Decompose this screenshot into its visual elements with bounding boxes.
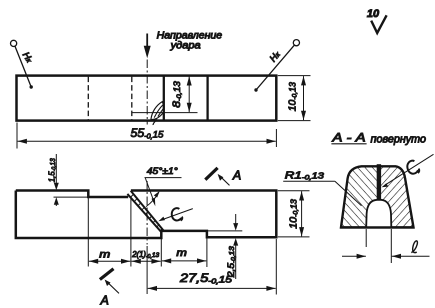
hidden edge (dashed) at slot corner x=131.8 (131, 77, 133, 120)
extension line for 2,5 dim at y=230.9 (207, 230, 242, 232)
dimension 2,5 lower arrow (235, 241, 237, 279)
svg-text:А: А (232, 169, 241, 183)
right leader line with dot (256, 45, 294, 90)
slot hatching ticks (131, 194, 162, 231)
45deg dimension arc with arrow (146, 192, 159, 206)
dimension 2(1) line (132, 260, 161, 262)
centerline of notch (dash-dot) (146, 60, 148, 125)
extension lines for l dim (365, 229, 367, 247)
leader for squiggle (bottom view) (163, 209, 193, 220)
squiggle symbol near bottom view slot (170, 207, 183, 222)
roughness check symbol (371, 15, 386, 33)
dimension text 10-0,13 (rotated, top view) (286, 82, 298, 111)
text Hk right (rotated) (268, 49, 283, 64)
leader from 45 text with arrow (145, 178, 154, 202)
left leader circle Hk (11, 40, 17, 46)
dimension 8-0,13 arrow line (188, 76, 190, 112)
dimension 2,5 upper arrow (235, 214, 237, 229)
text Hk left (rotated) (20, 50, 35, 65)
dimension text 8-0,13 (rotated) (171, 81, 183, 108)
l dimension lines with inward arrows (342, 255, 366, 257)
underline of A - A (331, 143, 366, 145)
dimension text 1,5-0,13 (rotated) (47, 158, 58, 182)
svg-text:повернуто: повернуто (371, 133, 427, 145)
dimension text 10-0,13 (rotated, bottom view) (288, 199, 299, 229)
slot (black) in section (377, 164, 381, 199)
svg-text:m: m (99, 249, 110, 260)
dimension 10-0,13 arrow line (bottom view) (301, 191, 303, 236)
extension of centerline down for 27,5 dim (146, 246, 148, 294)
extension line at x=130.9 (130, 198, 132, 267)
slot upper edge (45 deg) (131, 191, 164, 231)
extension line at x=206.9 (206, 232, 208, 268)
section mark A upper: arrow (220, 176, 230, 185)
dimension 55-0,15 line (18, 140, 276, 142)
hidden edge (dashed) at step x=88.3 (87, 77, 89, 120)
dimension 27,5-0,15 line (148, 287, 276, 289)
notch arch (white channel) (366, 200, 391, 228)
extension line at x=161.3 (160, 239, 162, 267)
R1 leader diagonal (335, 181, 362, 206)
specimen front-view outline (16, 191, 128, 198)
notch crack detail (hatched lens) (151, 102, 164, 125)
specimen top-view outline (17, 76, 277, 121)
text l (script) (411, 241, 417, 253)
impact direction arrow (146, 34, 148, 48)
svg-text:m: m (176, 248, 187, 259)
hatching right half (379, 166, 414, 227)
extension line for 8-dim (bottom of notch) (132, 112, 197, 114)
extension lines for 55-dim (16, 123, 18, 149)
section mark A lower: thick stroke (100, 269, 114, 280)
dimension 1,5 lower arrow (55, 199, 57, 206)
hatching left half (341, 166, 379, 227)
section mark A upper: thick stroke (205, 168, 217, 180)
section bottom edge (340, 226, 414, 228)
svg-text:27,5-0,15: 27,5-0,15 (179, 273, 233, 285)
svg-text:удара: удара (169, 40, 201, 51)
dimension text 2,5-0,13 (rotated) (226, 246, 237, 278)
dimension m (left) line (89, 260, 130, 262)
extension right edge down for 27,5 dim (275, 239, 277, 295)
svg-text:45°±1°: 45°±1° (147, 166, 178, 177)
extension line for 1,5 at y=197 (54, 196, 89, 198)
slot lower edge (45 deg) (127, 194, 161, 232)
visible edge at slot exit x=163.8 (163, 76, 165, 121)
centerline of slot (dash-dot) (146, 181, 148, 245)
svg-text:10: 10 (367, 8, 380, 20)
squiggle symbol near section slot (405, 159, 420, 176)
extension lines for 10-dim right (278, 75, 311, 77)
section mark A lower: arrow (108, 282, 120, 293)
svg-text:А: А (100, 294, 109, 308)
leader for squiggle (section) (385, 154, 434, 185)
right leader circle Hk (293, 40, 299, 46)
extension lines for 10-dim bottom view (278, 190, 310, 192)
left leader line with dot (15, 46, 31, 87)
dimension 10-0,13 arrow line (top view) (303, 76, 305, 120)
svg-text:2(1)-0,13: 2(1)-0,13 (131, 250, 159, 260)
svg-text:А - А: А - А (331, 131, 365, 145)
R1 leader underline (283, 180, 335, 182)
dimension m (right) line (162, 260, 206, 262)
extension line m-left at x=88.3 (87, 198, 89, 267)
dimension 1,5 upper arrow (55, 154, 57, 188)
section outline with hatching (341, 166, 414, 227)
visible edge at recess x=207.6 (206, 76, 208, 121)
underline of 45 text (145, 177, 182, 179)
